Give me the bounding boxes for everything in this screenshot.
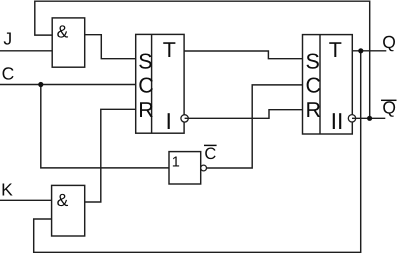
svg-text:R: R	[306, 98, 322, 122]
svg-text:C: C	[138, 73, 154, 97]
svg-text:T: T	[163, 38, 176, 62]
svg-text:R: R	[138, 98, 154, 122]
svg-text:K: K	[1, 180, 13, 200]
svg-text:C: C	[204, 145, 216, 163]
svg-text:Q: Q	[382, 32, 396, 52]
svg-text:C: C	[306, 73, 322, 97]
svg-text:C: C	[2, 64, 15, 84]
svg-text:II: II	[331, 108, 344, 134]
svg-text:T: T	[329, 38, 342, 62]
svg-text:&: &	[57, 21, 69, 41]
svg-text:1: 1	[172, 154, 180, 170]
svg-text:I: I	[166, 108, 172, 134]
svg-text:S: S	[306, 49, 320, 73]
svg-text:Q: Q	[382, 98, 396, 118]
svg-text:J: J	[3, 29, 12, 49]
svg-text:S: S	[138, 49, 152, 73]
svg-text:&: &	[57, 190, 69, 210]
